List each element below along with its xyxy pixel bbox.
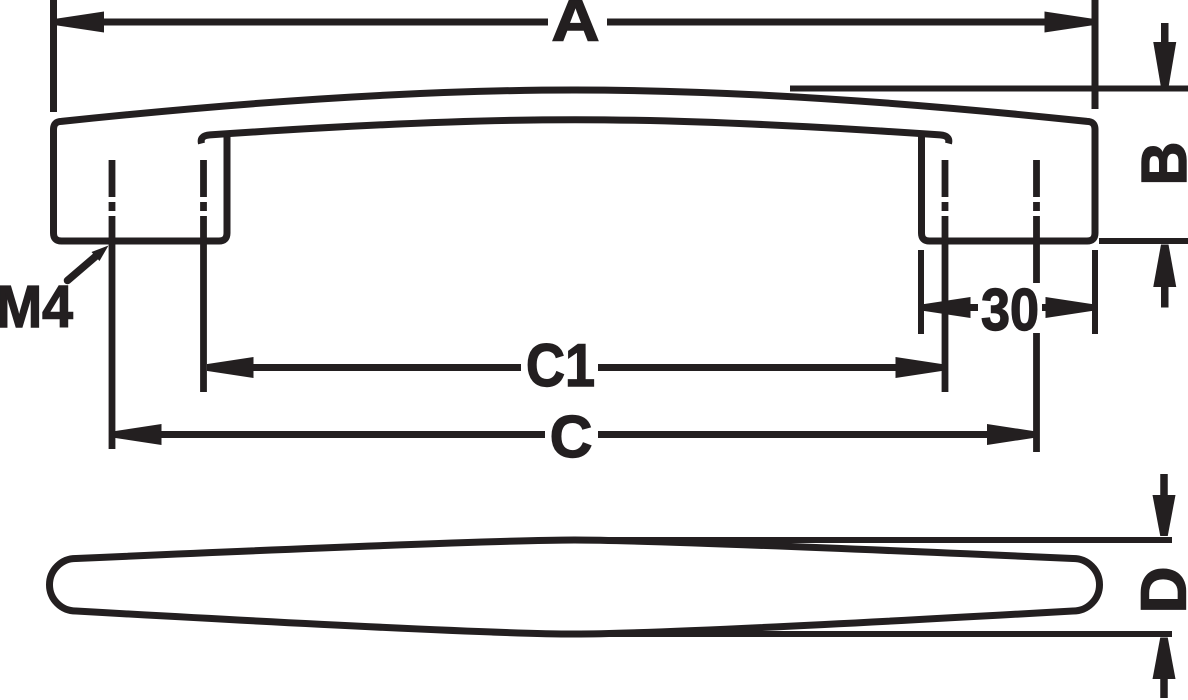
M4 leader arrowhead [92, 246, 109, 262]
svg-text:30: 30 [981, 277, 1039, 343]
arrowhead C1 left [208, 357, 254, 378]
extension line bottom of dimension B (foot base) [1099, 238, 1188, 244]
extension line right of dimension 30 [1092, 250, 1098, 334]
dimension line 30 (right segment) [1042, 304, 1092, 311]
screw hole centerline 2 (x=203.5) [200, 160, 207, 392]
arrow B top (pointing down) [1161, 23, 1169, 44]
extension line left of dimension 30 [918, 250, 924, 334]
svg-text:M4: M4 [0, 274, 73, 340]
dimension line A (right segment) [607, 19, 1092, 26]
dimension line A (left segment) [57, 19, 548, 26]
dimension line C (left segment) [115, 431, 545, 438]
svg-text:C: C [550, 404, 593, 470]
arrowhead A right [1045, 12, 1092, 33]
extension line bottom of dimension D [610, 631, 1172, 637]
svg-text:A: A [552, 0, 600, 54]
arrowhead 30 left [925, 297, 971, 318]
dimension line C (right segment) [598, 431, 1034, 438]
arrow B bottom (pointing up) [1161, 286, 1169, 308]
handle underside arc (front view) [201, 120, 949, 144]
screw hole centerline 1 (x=112) [109, 160, 116, 449]
svg-text:D: D [1128, 567, 1188, 614]
dimension line C1 (left segment) [207, 364, 521, 371]
dimension line 30 (left segment) [924, 304, 978, 311]
arrowhead 30 right [1046, 297, 1092, 318]
extension line right of dimension A [1092, 0, 1099, 109]
arrowhead C1 right [896, 357, 942, 378]
arrowhead C right [987, 424, 1033, 445]
extension line left of dimension A [50, 0, 57, 112]
svg-text:B: B [1128, 142, 1188, 186]
extension line top of dimension B (at arc peak) [790, 86, 1188, 92]
screw hole centerline 4 (x=1036.5) [1033, 160, 1040, 452]
screw hole centerline 3 (x=945) [942, 160, 949, 392]
bottom view outline (side profile) [50, 540, 1100, 634]
extension line top of dimension D [610, 537, 1172, 543]
svg-text:C1: C1 [526, 332, 595, 399]
handle outline (front view) [54, 90, 1096, 241]
arrow D top (pointing down) [1160, 474, 1168, 497]
arrowhead A left [58, 12, 105, 33]
arrow D bottom (pointing up) [1160, 679, 1168, 698]
dimension line C1 (right segment) [598, 364, 942, 371]
arrowhead C left [116, 424, 162, 445]
M4 leader line [68, 254, 100, 281]
